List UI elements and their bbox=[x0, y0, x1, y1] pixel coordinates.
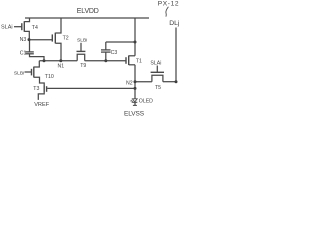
svg-text:SLAi: SLAi bbox=[1, 24, 13, 30]
svg-text:T2: T2 bbox=[63, 36, 69, 42]
svg-text:T9: T9 bbox=[80, 63, 86, 69]
svg-text:T4: T4 bbox=[32, 25, 38, 31]
svg-text:N3: N3 bbox=[20, 37, 27, 43]
svg-text:T3: T3 bbox=[33, 86, 39, 92]
svg-text:T10: T10 bbox=[45, 74, 54, 80]
svg-text:C1: C1 bbox=[20, 51, 27, 57]
svg-text:N1: N1 bbox=[58, 63, 65, 69]
svg-text:T1: T1 bbox=[136, 58, 142, 64]
svg-text:PX-12: PX-12 bbox=[158, 1, 179, 8]
svg-text:N2: N2 bbox=[126, 81, 133, 87]
svg-text:SLBi: SLBi bbox=[14, 70, 24, 76]
svg-text:T5: T5 bbox=[155, 85, 161, 91]
svg-text:DLj: DLj bbox=[169, 20, 180, 27]
svg-text:OLED: OLED bbox=[139, 99, 153, 105]
svg-text:VREF: VREF bbox=[34, 102, 50, 108]
svg-text:SLAi: SLAi bbox=[150, 61, 161, 67]
svg-text:ELVDD: ELVDD bbox=[77, 8, 99, 15]
svg-text:ELVSS: ELVSS bbox=[124, 111, 145, 118]
svg-text:C3: C3 bbox=[111, 50, 118, 56]
svg-text:SLBi: SLBi bbox=[77, 37, 87, 43]
